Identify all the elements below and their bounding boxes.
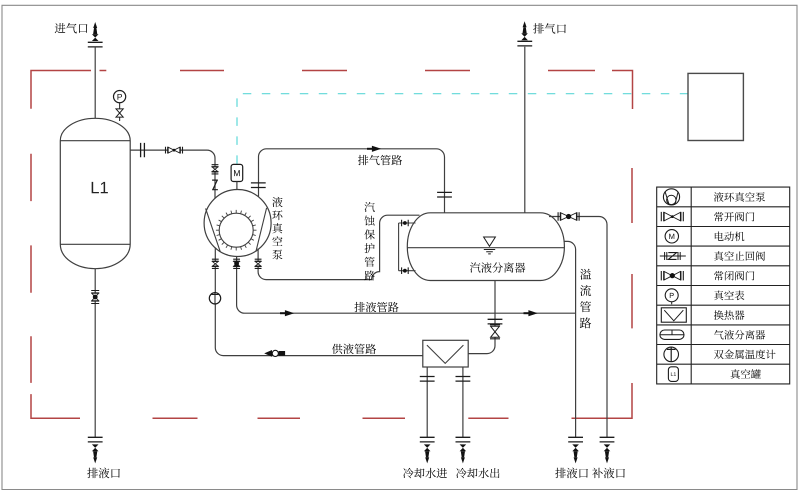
label 排液管路	[354, 302, 398, 312]
legend check valve symbol	[660, 255, 686, 257]
cooling out nozzle (冷却水出)	[460, 444, 467, 451]
label 排液口 left	[87, 468, 120, 479]
pump impeller	[219, 213, 253, 247]
inlet nozzle (进气口)	[92, 34, 99, 41]
label 汽液分离器	[470, 262, 525, 272]
red boundary bottom dashes	[153, 417, 509, 419]
vent nozzle (排气口)	[521, 33, 528, 40]
pipe: make-up line to 补液口	[549, 217, 607, 438]
separator outlet valve	[490, 325, 500, 339]
label 供液管路	[332, 344, 376, 354]
label 排气口	[533, 23, 566, 33]
legend gauge symbol	[665, 289, 678, 302]
pipe: gauge stem	[119, 103, 121, 121]
cooling in bottom flange	[420, 437, 435, 442]
motor M	[231, 164, 243, 181]
tank outlet flange	[141, 143, 145, 157]
inlet flange	[88, 42, 103, 47]
pump port lines	[206, 208, 267, 252]
supply flow marker	[264, 350, 272, 357]
vent flange	[517, 41, 532, 46]
supply valve	[212, 259, 219, 268]
cooling in nozzle (冷却水进)	[424, 444, 431, 451]
red boundary bottom-right corner	[572, 383, 633, 418]
red boundary bottom-left corner	[31, 394, 80, 418]
heat exchanger 换热器	[423, 340, 468, 367]
electric control box	[688, 73, 743, 140]
tank drain valve (closed)	[91, 291, 99, 304]
pipe: cooling water in	[426, 367, 428, 437]
pump casing	[204, 190, 271, 257]
exhaust flange at pump	[251, 183, 266, 188]
make-up valve (closed)	[558, 212, 579, 220]
pipe: inlet to tank L1	[94, 47, 96, 120]
exhaust flow arrow	[372, 146, 381, 152]
red boundary left dashes	[30, 154, 32, 383]
vacuum gauge P1	[114, 91, 126, 103]
pipe: overflow line 溢流管路	[564, 241, 576, 437]
label 汽蚀保护管路	[364, 202, 374, 281]
legend label 双金属温度计	[714, 349, 776, 359]
legend pump symbol	[663, 189, 679, 205]
legend label 常开阀门	[714, 212, 754, 222]
level gauge valve upper	[402, 220, 409, 227]
legend label 电动机	[715, 232, 745, 242]
cooling in flange pair	[420, 377, 435, 382]
pipe: cooling water out	[462, 367, 464, 437]
cavitation line valve	[255, 259, 262, 268]
legend table	[657, 187, 790, 384]
pipe: separator vent 排气口	[524, 47, 526, 213]
legend separator symbol	[660, 330, 684, 339]
legend label 换热器	[714, 310, 745, 320]
tank L1	[60, 118, 130, 268]
pipe: exhaust line 排气管路	[258, 149, 444, 213]
legend label 气液分离器	[714, 330, 765, 340]
cyan control signal line	[237, 94, 688, 164]
pipe: drain line 排液管路	[237, 257, 576, 314]
level gauge loop	[399, 223, 416, 271]
level gauge valve lower	[402, 267, 409, 274]
label 冷却水进	[403, 468, 447, 478]
legend label 真空罐	[731, 369, 761, 379]
label 排液口 right	[555, 468, 588, 479]
red boundary top-right corner	[612, 71, 633, 110]
make-up nozzle (补液口)	[604, 444, 611, 451]
level symbol	[484, 237, 496, 246]
separator liquid level line	[407, 247, 564, 249]
pipe: motor shaft	[236, 182, 238, 190]
pipe: supply line 供液管路	[215, 248, 422, 356]
suction check valve V1	[166, 147, 183, 154]
bimetal thermometer T1	[209, 293, 220, 304]
pipe: tank outlet to pump suction	[130, 150, 215, 198]
legend thermometer symbol	[664, 347, 679, 362]
pipe: cavitation protection line 汽蚀保护管路	[258, 215, 419, 279]
legend heat exchanger symbol	[661, 308, 686, 322]
label 进气口	[55, 23, 88, 33]
label 液环真空泵	[272, 197, 282, 260]
red boundary top dashes	[180, 70, 595, 72]
suction valve V2	[212, 165, 219, 174]
separator vessel 汽液分离器	[407, 213, 564, 281]
vacuum check valve Z1	[212, 180, 218, 190]
gauge isolation valve	[116, 109, 123, 117]
red boundary right dashes	[631, 168, 633, 328]
legend label 常闭阀门	[714, 271, 754, 281]
cooling out flange pair	[456, 377, 471, 382]
overflow bottom flange	[568, 437, 583, 442]
tank drain nozzle (排液口)	[92, 444, 99, 451]
separator outlet flange	[488, 319, 503, 324]
label 排气管路	[358, 155, 402, 165]
cooling out bottom flange	[456, 437, 471, 442]
exhaust flange at separator	[437, 192, 452, 197]
pipe: tank drain to 排液口	[94, 269, 96, 438]
legend closed valve symbol	[661, 271, 683, 280]
label 冷却水出	[456, 468, 499, 478]
tank drain flange	[88, 437, 103, 442]
label L1	[92, 182, 108, 193]
drain valve (closed)	[233, 259, 240, 268]
legend label 液环真空泵	[714, 192, 765, 202]
make-up bottom flange	[600, 437, 615, 442]
legend label 真空止回阀	[714, 251, 765, 261]
label 补液口	[592, 468, 625, 479]
red boundary top-left corner	[31, 71, 106, 109]
legend motor symbol	[665, 230, 678, 243]
legend open valve symbol	[661, 212, 683, 221]
legend tank symbol	[668, 367, 678, 382]
overflow nozzle (排液口)	[572, 444, 579, 451]
label 溢流管路	[580, 269, 591, 329]
drain flow arrow 2	[528, 310, 537, 316]
pipe: separator bottom to HX	[468, 281, 495, 354]
drain flow arrow 1	[285, 310, 294, 316]
legend label 真空表	[714, 290, 744, 300]
